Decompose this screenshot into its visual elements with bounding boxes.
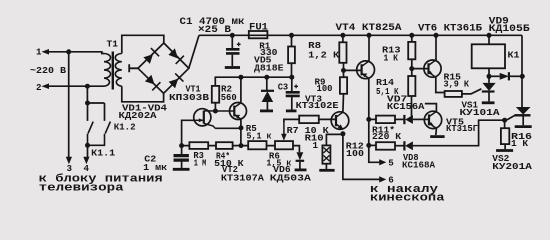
transformer T1 primary winding <box>104 54 111 87</box>
node VT3 emitter / R10 <box>340 131 345 136</box>
resistor R13 <box>408 42 415 59</box>
wire R6 wiper to R7 <box>284 119 299 122</box>
node R3/C2/gate junction <box>179 143 184 148</box>
wire terminal 2 to transformer primary bottom <box>48 85 104 87</box>
terminal 1 <box>36 46 49 57</box>
svg-text:КТ3102Е: КТ3102Е <box>296 100 340 111</box>
capacitor C2 <box>173 146 190 170</box>
svg-text:С3: С3 <box>278 82 289 93</box>
transistor VT2 <box>230 103 247 120</box>
svg-text:К1: К1 <box>508 50 521 61</box>
svg-text:510 К: 510 К <box>214 158 244 169</box>
node K1 bottom / VS1 / VD9 <box>487 74 492 79</box>
node R13 tap <box>409 33 414 38</box>
wire VT5 emitter to ground <box>435 128 438 135</box>
node R2 bottom / VT1 drain / VT2 base <box>213 109 218 114</box>
resistor R3 <box>189 142 208 149</box>
node VT2 collector tap <box>238 75 243 80</box>
svg-text:1: 1 <box>36 46 42 57</box>
wire VT4 base <box>344 69 362 71</box>
fuse FU1 <box>249 31 268 38</box>
node R8/R9/VT4 base <box>341 68 346 73</box>
svg-text:~220 В: ~220 В <box>30 65 67 76</box>
zener diode VD5 <box>260 77 274 111</box>
node K1 tap <box>487 33 492 38</box>
svg-text:КП303В: КП303В <box>169 92 210 103</box>
svg-text:220 К: 220 К <box>372 131 401 142</box>
svg-text:КТ3107А: КТ3107А <box>221 173 265 184</box>
resistor R8 <box>339 42 346 63</box>
svg-text:×25 В: ×25 В <box>198 25 231 36</box>
wire secondary bottom to bridge bottom vertex <box>122 86 164 102</box>
terminal 2 <box>36 82 49 93</box>
node junction terminal2 branch <box>85 84 90 89</box>
capacitor C1 <box>225 35 241 67</box>
svg-text:5,1 к: 5,1 к <box>247 131 272 142</box>
wire R7 to VT3 base <box>319 118 336 120</box>
wire VT4 collector to rail <box>368 35 370 61</box>
wire VT6 collector to rail <box>435 35 437 60</box>
transistor VT4 <box>357 61 375 79</box>
wire K1 bottom to node <box>488 68 490 83</box>
wire VT2 base <box>215 110 234 112</box>
svg-text:КД202А: КД202А <box>119 110 158 121</box>
wire VT4 emitter down <box>369 78 381 162</box>
wire right rail down <box>521 35 523 107</box>
diode VD3 (bottom-left arm) <box>145 75 161 91</box>
transformer T1 secondary winding <box>115 54 122 87</box>
terminal 3 arrow <box>66 157 72 165</box>
resistor R1 <box>288 47 295 64</box>
bridge left vertex stub <box>129 64 138 72</box>
svg-text:КТ315Г: КТ315Г <box>446 123 478 134</box>
svg-text:КС168А: КС168А <box>402 159 435 170</box>
wire bridge right vertex diagonal to top rail <box>189 35 199 68</box>
transistor VT3 <box>331 112 349 130</box>
wire VT3 emitter node down to terminal 6 <box>343 134 381 180</box>
wire VT2 emitter down <box>240 119 242 146</box>
wire VT1 gate <box>182 120 194 145</box>
svg-text:кинескопа: кинескопа <box>370 193 445 205</box>
node VS2 gate / R16 <box>502 118 507 123</box>
svg-text:1 К: 1 К <box>511 138 528 149</box>
node R1 tap <box>289 33 294 38</box>
thyristor VS1 <box>482 83 496 103</box>
diode VD4 (bottom-right arm) <box>169 73 184 88</box>
resistor R2 <box>212 86 219 103</box>
wire R15 to VS1 gate <box>462 89 482 94</box>
diode VD9 <box>489 72 522 80</box>
resistor R9 <box>340 77 347 94</box>
node VT4 collector tap <box>367 33 372 38</box>
wire VT5 collector stub <box>425 104 437 112</box>
zener diode VD8 <box>395 141 413 150</box>
zener diode VD7 <box>395 115 413 124</box>
transistor VT5 <box>424 111 441 128</box>
wire secondary top to bridge top vertex <box>122 35 164 53</box>
svg-text:К1.2: К1.2 <box>114 122 136 133</box>
svg-text:К1.1: К1.1 <box>91 148 116 159</box>
wire contacts to terminal 4 <box>87 145 89 157</box>
transistor VT1 (JFET) <box>194 109 216 129</box>
trimmer R6 wiper arrow <box>283 122 285 137</box>
ground VT5 emitter <box>430 135 444 138</box>
wire VT1 source to node <box>215 127 241 129</box>
wire rail to K1 top <box>488 35 490 44</box>
relay coil K1 <box>472 44 505 68</box>
svg-text:КС156А: КС156А <box>387 101 425 112</box>
svg-text:VT4 КТ825А: VT4 КТ825А <box>336 23 402 34</box>
relay contact K1.2 <box>88 122 111 146</box>
node VT1 source / VT2 emitter <box>239 125 244 130</box>
wire terminal2 junction down to contacts tee <box>87 86 104 121</box>
node junction terminal1/terminal3 <box>66 49 71 54</box>
resistor R15 <box>445 91 462 97</box>
node R1 bottom / C3 tap <box>289 75 294 80</box>
terminal 4 arrow <box>83 157 89 165</box>
bridge rectifier VD1-VD4 diamond <box>138 43 189 93</box>
transistor VT6 <box>424 60 441 77</box>
node VD5 tap <box>264 75 269 80</box>
node VT6 collector tap <box>434 33 439 38</box>
node VD9 / right rail <box>520 74 525 79</box>
svg-text:100: 100 <box>346 148 364 159</box>
node R13/R14/VT6 base <box>409 66 414 71</box>
svg-text:КД503А: КД503А <box>270 173 312 184</box>
svg-text:560: 560 <box>221 92 237 103</box>
wire VD8 to VS2 gate line <box>413 120 505 146</box>
wire terminal 1 to transformer primary top <box>48 52 104 54</box>
transformer T1 core <box>112 52 114 90</box>
node R12 tap <box>366 143 371 148</box>
wire terminal1 junction down to terminal 3 <box>68 52 70 158</box>
svg-text:VT6 КТ361Б: VT6 КТ361Б <box>418 23 482 34</box>
resistor R7 <box>299 116 319 124</box>
wire VT3 collector to R9 <box>342 94 345 112</box>
terminal 6 arrow <box>379 176 386 182</box>
resistor R5 <box>248 141 266 149</box>
svg-text:телевизора: телевизора <box>39 182 125 194</box>
diode VD1 (top-left arm) <box>143 48 159 64</box>
relay contact K1.1 <box>88 122 94 146</box>
svg-text:3,9 К: 3,9 К <box>444 79 470 90</box>
diode VD2 (top-right arm) <box>168 48 184 64</box>
node R11 tap <box>366 117 371 122</box>
svg-text:1 К: 1 К <box>384 52 399 63</box>
svg-text:Д818Е: Д818Е <box>254 63 284 74</box>
wire R9 top to node <box>343 63 345 77</box>
svg-text:1 М: 1 М <box>194 158 207 169</box>
trimmer resistor R6 <box>275 141 293 149</box>
wire VT6 base <box>412 68 429 70</box>
svg-text:3: 3 <box>67 163 73 174</box>
wire VD7 to VT5 base (R14 joins) <box>413 118 427 120</box>
resistor R10 (with crosses) <box>319 134 343 170</box>
node R8 tap <box>340 33 345 38</box>
svg-text:1,2 К: 1,2 К <box>308 50 340 61</box>
thyristor VS2 <box>505 107 532 127</box>
resistor R11 <box>376 116 395 124</box>
svg-text:1 мк: 1 мк <box>143 162 168 173</box>
svg-text:КД105Б: КД105Б <box>489 24 530 35</box>
svg-text:2: 2 <box>36 82 42 93</box>
resistor R14 <box>408 76 415 96</box>
svg-text:FU1: FU1 <box>249 23 268 34</box>
wire VT2 collector to mid rail <box>240 77 242 103</box>
resistor R4 <box>216 142 233 149</box>
wire R6 right to VD6 <box>293 146 299 153</box>
diode VD6 <box>295 152 307 170</box>
wire mid rail (bridge + output) <box>215 77 291 86</box>
svg-text:5,1 К: 5,1 К <box>376 86 399 97</box>
svg-text:100: 100 <box>317 83 333 94</box>
node C1 tap <box>230 33 235 38</box>
svg-text:КУ201А: КУ201А <box>492 161 532 172</box>
wire VT6 emitter to R15 <box>436 77 445 93</box>
svg-text:4: 4 <box>84 163 90 174</box>
svg-text:КУ101А: КУ101А <box>460 107 501 118</box>
node R4/R5 junction <box>239 143 244 148</box>
resistor R16 <box>496 120 513 150</box>
wire top rail <box>199 34 522 36</box>
node contacts join <box>85 143 90 148</box>
svg-text:Т1: Т1 <box>107 39 119 50</box>
svg-text:5: 5 <box>388 157 394 168</box>
terminal 5 arrow <box>379 159 386 165</box>
resistor R12 <box>376 142 395 150</box>
capacitor C3 <box>286 77 300 111</box>
svg-text:1: 1 <box>313 140 319 151</box>
node tee junction <box>85 101 90 106</box>
wire VT5 base <box>426 118 429 120</box>
